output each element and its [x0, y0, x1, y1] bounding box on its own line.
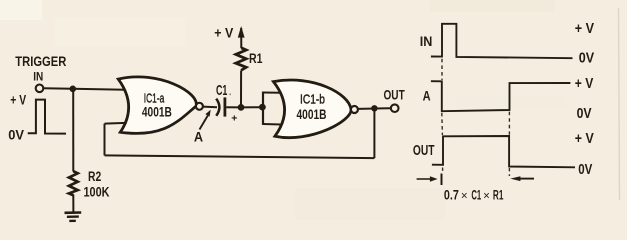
dashed line t2: [508, 112, 510, 176]
junction dot at gate2 input bar: [259, 104, 266, 111]
svg-text:0.7: 0.7: [444, 188, 459, 203]
node A pointer arrow: [200, 116, 208, 130]
wire C1 to node A junction: [226, 106, 241, 108]
svg-text:+ V: + V: [575, 21, 595, 37]
svg-text:0V: 0V: [577, 106, 592, 122]
wire junction to gate1 upper input: [73, 88, 126, 91]
wire IN terminal to junction: [43, 87, 73, 90]
wire gate2 output bubble to OUT: [358, 107, 391, 110]
wire gate1 output bubble to C1: [203, 106, 217, 109]
svg-text:+ V: + V: [575, 131, 594, 147]
wire node A up to R1: [240, 71, 242, 108]
pulse width arrow left: [417, 178, 431, 180]
svg-text:R1: R1: [493, 188, 504, 203]
faint page edge line right: [619, 8, 620, 200]
gate U1b body (NOR IC1-b): [273, 80, 351, 138]
svg-text:A: A: [423, 87, 431, 103]
feedback wire: bottom rail: [105, 155, 375, 158]
svg-text:×: ×: [461, 190, 468, 202]
speck after C1: [229, 93, 231, 95]
junction dot at output node: [371, 105, 377, 111]
svg-text:C1: C1: [471, 188, 481, 203]
IN terminal circle: [36, 85, 44, 93]
svg-text:IN: IN: [33, 72, 43, 84]
svg-text:OUT: OUT: [413, 143, 435, 159]
svg-text:+: +: [231, 112, 237, 124]
gate2 upper input stub: [263, 92, 281, 94]
resistor R1: [236, 48, 246, 71]
svg-text:4001B: 4001B: [142, 105, 172, 120]
gate U1a body (NOR IC1-a): [118, 77, 196, 134]
feedback wire: down from output node: [373, 108, 375, 158]
svg-text:OUT: OUT: [384, 88, 406, 103]
svg-text:IC1-a: IC1-a: [144, 91, 165, 105]
trigger pulse waveform: [28, 100, 66, 134]
svg-text:R1: R1: [249, 51, 263, 66]
svg-text:100K: 100K: [84, 183, 110, 199]
svg-text:C1: C1: [216, 82, 227, 99]
svg-text:R2: R2: [88, 169, 101, 184]
waveform A: [431, 81, 571, 111]
junction dot at node A: [238, 104, 245, 111]
capacitor C1 straight plate: [223, 97, 226, 116]
feedback wire: left riser up: [104, 124, 106, 156]
svg-text:×: ×: [483, 190, 490, 202]
gate IC1-b output bubble: [351, 106, 358, 113]
tick below dashed line t1: [441, 174, 443, 186]
dashed line t1: [441, 59, 444, 173]
ground: [65, 213, 82, 221]
+V supply arrowhead: [238, 26, 245, 38]
pulse width arrow right: [520, 178, 535, 180]
svg-text:0V: 0V: [579, 50, 595, 66]
svg-text:+ V: + V: [575, 76, 594, 92]
svg-text:0V: 0V: [578, 162, 592, 178]
OUT terminal circle: [391, 104, 399, 112]
waveform OUT: [432, 136, 575, 167]
svg-text:A: A: [194, 129, 203, 145]
gate IC1-a output bubble: [196, 103, 203, 110]
wire junction down to R2: [72, 89, 74, 172]
gate1 lower input stub: [105, 122, 127, 125]
svg-text:4001B: 4001B: [297, 107, 327, 122]
svg-text:0V: 0V: [8, 126, 24, 142]
resistor R2: [69, 171, 78, 195]
gate2 input bar: [262, 92, 264, 125]
svg-text:+ V: + V: [10, 92, 26, 108]
junction dot at IN node: [70, 86, 77, 93]
svg-text:TRIGGER: TRIGGER: [15, 54, 66, 69]
wire node A to gate2 input bar: [241, 106, 263, 108]
gate2 lower input stub: [263, 123, 282, 126]
waveform IN: [431, 24, 573, 58]
wire R1 top to +V arrow: [240, 28, 242, 48]
capacitor C1 curved plate: [216, 99, 219, 116]
svg-text:IN: IN: [420, 34, 433, 49]
svg-text:IC1-b: IC1-b: [300, 93, 325, 107]
wire R2 to ground: [72, 195, 74, 213]
svg-text:+ V: + V: [214, 26, 233, 41]
